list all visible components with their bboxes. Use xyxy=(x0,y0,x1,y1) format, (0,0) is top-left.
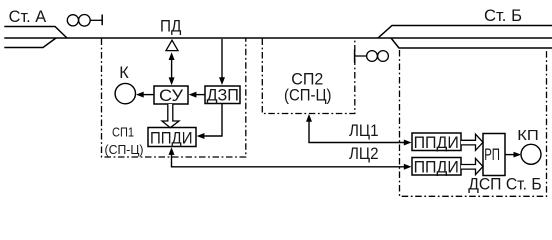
block ППДИ (ЛЦ1) xyxy=(412,133,461,152)
block РП xyxy=(483,134,505,176)
svg-text:КП: КП xyxy=(517,128,539,144)
wire ЛЦ1 (to СП2 and ППДИ) xyxy=(306,114,412,146)
svg-text:ППДИ: ППДИ xyxy=(150,128,193,147)
boundary СП2 zone (dash-dot) xyxy=(262,39,355,114)
wire ПД-СУ (double-headed arrow) xyxy=(169,52,175,85)
block ППДИ (ЛЦ2) xyxy=(412,157,461,176)
svg-text:ЛЦ2: ЛЦ2 xyxy=(349,145,379,163)
svg-text:СУ: СУ xyxy=(159,86,183,105)
track station A lower siding xyxy=(4,38,56,48)
svg-text:(СП-Ц): (СП-Ц) xyxy=(284,86,332,104)
wire СУ-К xyxy=(136,92,154,98)
svg-text:ЛЦ1: ЛЦ1 xyxy=(349,122,379,140)
antenna ПД (triangle) xyxy=(166,40,178,50)
wire ЛЦ2 (from ППДИ СП1 to ППДИ ДСП) xyxy=(169,147,412,170)
track station B upper siding xyxy=(378,26,552,39)
svg-text:ДЗП: ДЗП xyxy=(207,85,239,104)
wire ДЗП-ППДИ xyxy=(197,104,222,139)
wire РП-КП xyxy=(505,152,521,158)
track station B lower siding xyxy=(391,38,552,48)
boundary ДСП Ст.Б zone (dash-dot) xyxy=(400,50,547,196)
wire ДЗП-СУ xyxy=(189,92,205,98)
block СУ xyxy=(154,86,188,105)
svg-text:РП: РП xyxy=(484,146,500,164)
indicator КП (lamp) xyxy=(521,144,541,164)
signal N (station A): two-head light signal xyxy=(67,14,102,26)
block ППДИ (СП1) xyxy=(148,128,196,148)
track main line xyxy=(4,37,552,39)
wire ППДИ1=РП (hollow arrow) xyxy=(461,134,483,150)
signal Ч (station B): two-head light signal xyxy=(355,50,389,63)
block ДЗП xyxy=(205,85,240,104)
svg-text:ППДИ: ППДИ xyxy=(414,133,459,152)
indicator К (lamp) xyxy=(115,83,135,103)
svg-text:ППДИ: ППДИ xyxy=(414,157,459,176)
svg-text:Ст. Б: Ст. Б xyxy=(484,7,522,25)
wire СУ=ППДИ (hollow arrow) xyxy=(162,104,179,128)
wire track-ДЗП xyxy=(219,39,225,85)
svg-text:(СП-Ц): (СП-Ц) xyxy=(105,142,144,157)
svg-text:Ст. А: Ст. А xyxy=(9,8,47,26)
svg-text:ПД: ПД xyxy=(160,17,181,35)
svg-text:К: К xyxy=(119,64,129,82)
boundary СП1 zone (dash-dot) xyxy=(102,39,246,158)
svg-text:ДСП Ст. Б: ДСП Ст. Б xyxy=(468,175,542,194)
track station A upper siding xyxy=(4,27,67,39)
wire ППДИ2=РП (hollow arrow) xyxy=(461,158,483,174)
svg-text:СП1: СП1 xyxy=(112,125,134,140)
